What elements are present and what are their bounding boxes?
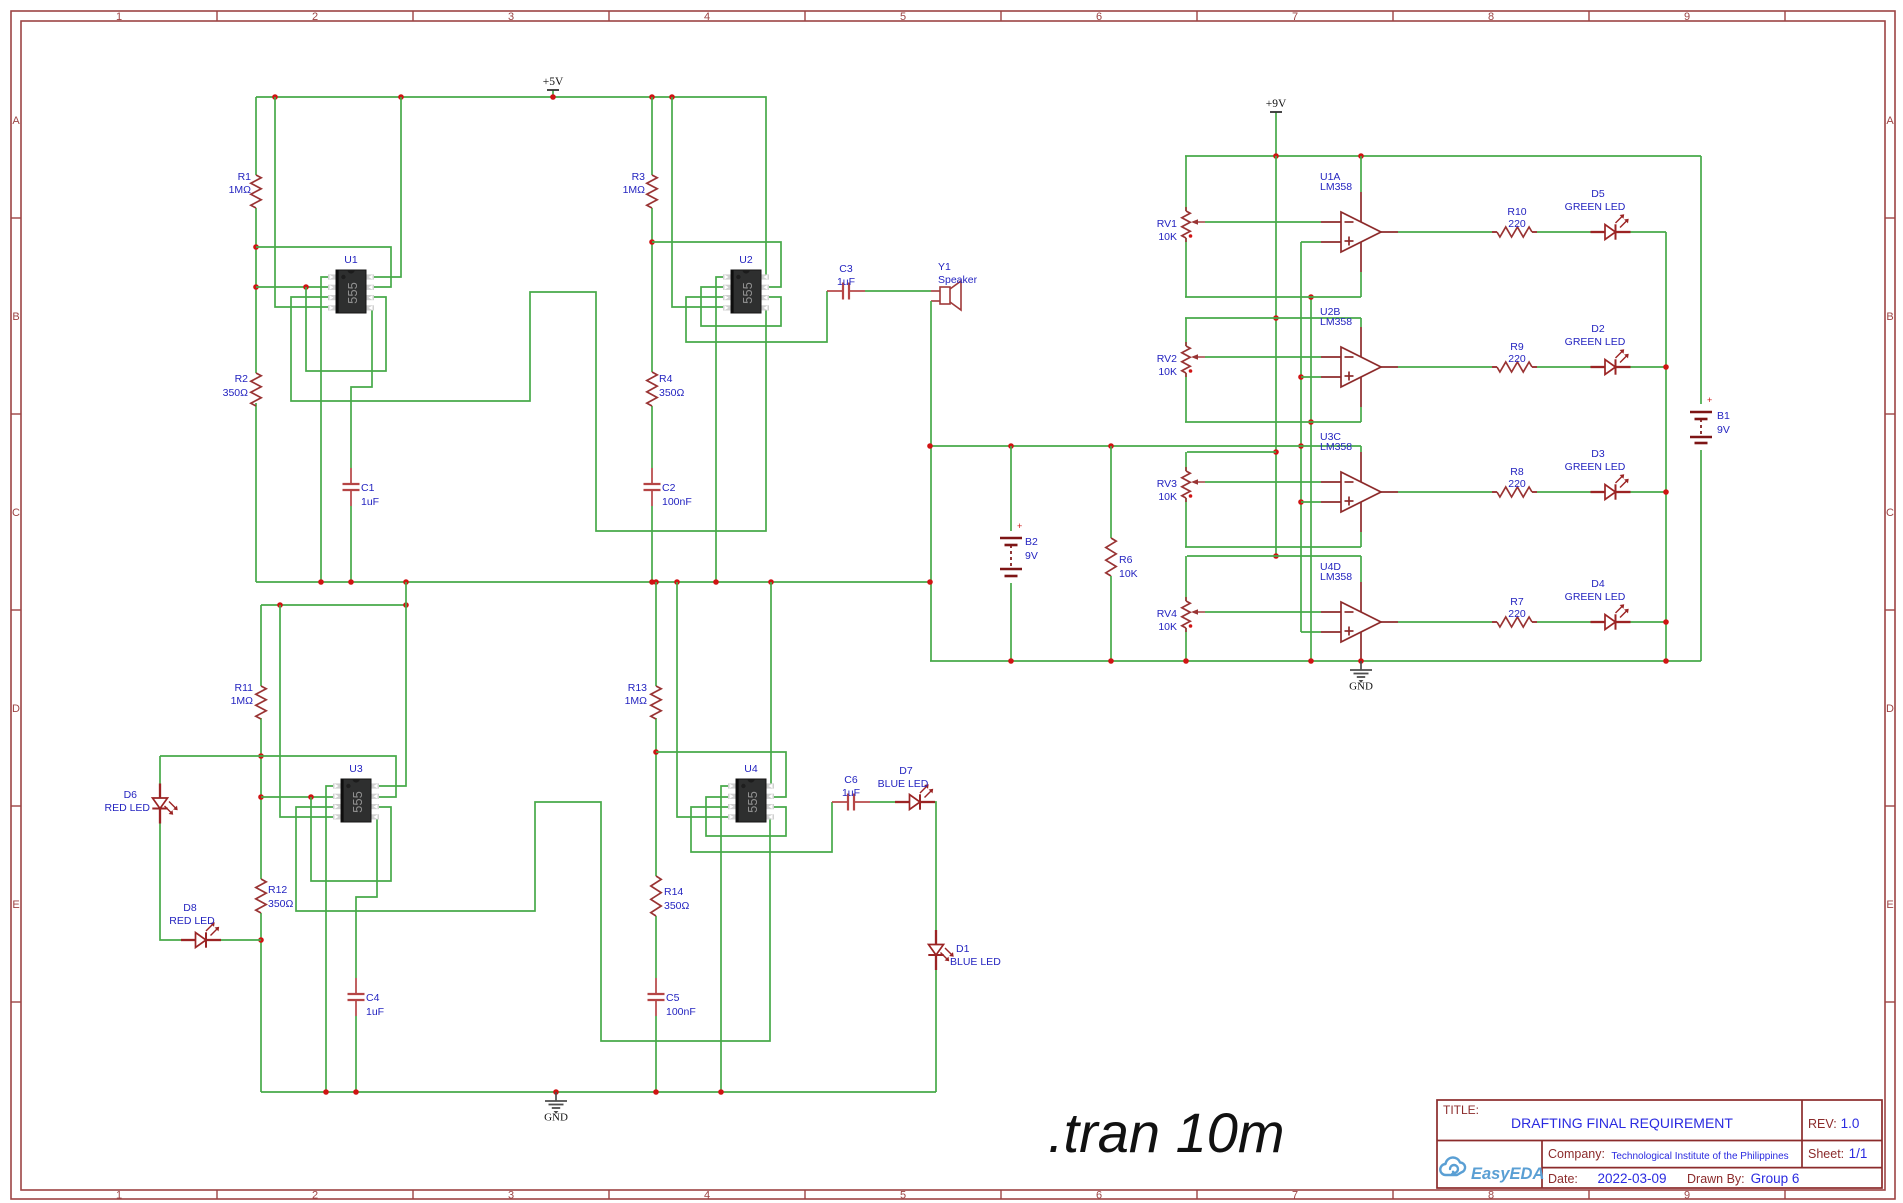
svg-text:1.0: 1.0	[1841, 1116, 1860, 1131]
svg-text:U4: U4	[744, 763, 758, 775]
svg-text:B2: B2	[1025, 536, 1038, 548]
wire U3 pin3 to U4 link	[296, 802, 770, 1041]
svg-text:7: 7	[1292, 11, 1298, 23]
speaker Y1	[931, 290, 940, 292]
node lower rail junctions	[277, 602, 283, 608]
power flag +5V	[552, 90, 554, 97]
svg-text:D8: D8	[183, 902, 197, 914]
svg-text:R14: R14	[664, 886, 683, 898]
wire ground column	[1310, 297, 1312, 661]
wire lower rail	[261, 604, 406, 606]
svg-text:C: C	[12, 507, 20, 519]
svg-text:C5: C5	[666, 992, 680, 1004]
svg-text:D1: D1	[956, 943, 970, 955]
wire U3 pin8 feed	[370, 582, 406, 786]
resistor R9 220	[1492, 366, 1497, 368]
node R3 junction	[649, 239, 655, 245]
LED D7 blue	[895, 801, 910, 803]
node left bus junctions	[318, 579, 324, 585]
svg-text:R6: R6	[1119, 554, 1133, 566]
svg-text:R13: R13	[628, 682, 647, 694]
svg-text:RV3: RV3	[1157, 478, 1177, 490]
svg-text:Speaker: Speaker	[938, 274, 978, 286]
svg-text:220: 220	[1508, 353, 1526, 365]
node R11-R12 junctions	[258, 753, 264, 759]
svg-text:RV1: RV1	[1157, 218, 1177, 230]
svg-text:D7: D7	[899, 765, 913, 777]
svg-text:R11: R11	[235, 682, 254, 694]
svg-text:6: 6	[1096, 11, 1102, 23]
node mid bus junctions	[927, 443, 933, 449]
wire U3 pin4 feed	[280, 605, 342, 817]
wire LED cathode column	[1665, 232, 1667, 661]
wire U1 pin8 to rail	[365, 97, 401, 277]
wire U4 pin8 feed	[765, 582, 771, 786]
wire D1 to bus	[935, 970, 937, 1092]
svg-text:Drawn By:: Drawn By:	[1687, 1172, 1745, 1186]
wire R10 to D5	[1537, 231, 1591, 233]
wire U1 pin7 link	[256, 247, 391, 287]
wire U1A output	[1398, 231, 1492, 233]
LED D1 blue	[935, 930, 937, 945]
LED D6 red	[159, 756, 161, 784]
wire R3-R4 column	[651, 97, 653, 175]
node lower bus junctions	[323, 1089, 329, 1095]
svg-text:U2: U2	[739, 254, 753, 266]
svg-text:GND: GND	[544, 1112, 568, 1124]
capacitor C1	[350, 468, 352, 484]
wire U2B output	[1398, 366, 1492, 368]
svg-text:R9: R9	[1510, 341, 1524, 353]
wire U4 pin1 down	[721, 786, 738, 1092]
svg-text:8: 8	[1488, 11, 1494, 23]
wire U1 pin6 loop	[306, 287, 386, 371]
wire U4 pin4 feed	[677, 582, 738, 817]
svg-text:DRAFTING FINAL REQUIREMENT: DRAFTING FINAL REQUIREMENT	[1511, 1115, 1733, 1131]
svg-text:555: 555	[745, 791, 760, 813]
wire mid signal bus	[930, 445, 1361, 447]
svg-text:2022-03-09: 2022-03-09	[1597, 1171, 1666, 1186]
svg-text:1MΩ: 1MΩ	[623, 184, 646, 196]
svg-text:GREEN LED: GREEN LED	[1565, 201, 1626, 213]
svg-text:9V: 9V	[1025, 550, 1038, 562]
svg-text:1/1: 1/1	[1849, 1146, 1868, 1161]
svg-text:555: 555	[345, 282, 360, 304]
wire R11-R12 column	[260, 605, 262, 686]
LED D8 red	[181, 939, 196, 941]
title block	[1437, 1100, 1882, 1188]
wire R9 to D2	[1537, 366, 1591, 368]
svg-text:D3: D3	[1591, 448, 1605, 460]
svg-text:1uF: 1uF	[842, 787, 860, 799]
resistor R12	[256, 879, 266, 913]
wire U4 pin3 to C6	[691, 802, 832, 852]
svg-text:+5V: +5V	[543, 76, 564, 88]
op-amp U3C LM358	[1360, 452, 1362, 482]
svg-text:C3: C3	[839, 263, 853, 275]
node +5V rail junctions	[272, 94, 278, 100]
wire speaker to buses	[930, 301, 932, 661]
svg-text:8: 8	[1488, 1190, 1494, 1202]
svg-text:4: 4	[704, 1190, 710, 1202]
wire U2 pin7 link	[652, 242, 781, 287]
node plus column junctions	[1298, 374, 1304, 380]
svg-text:REV:: REV:	[1808, 1117, 1837, 1131]
svg-text:B1: B1	[1717, 410, 1730, 422]
svg-text:5: 5	[900, 11, 906, 23]
wire U3C output	[1398, 491, 1492, 493]
svg-text:350Ω: 350Ω	[268, 898, 294, 910]
svg-text:1uF: 1uF	[837, 276, 855, 288]
svg-text:9V: 9V	[1717, 424, 1730, 436]
wire C1 to bus	[350, 506, 352, 582]
svg-text:+: +	[1017, 521, 1022, 531]
wire R8 to D3	[1537, 491, 1591, 493]
wire U2 pin3 to C3	[686, 291, 827, 342]
svg-text:C2: C2	[662, 482, 676, 494]
svg-text:1MΩ: 1MΩ	[231, 695, 254, 707]
resistor R13	[651, 686, 661, 719]
svg-text:LM358: LM358	[1320, 441, 1352, 453]
svg-text:9: 9	[1684, 1190, 1690, 1202]
svg-text:A: A	[12, 115, 20, 127]
svg-text:220: 220	[1508, 478, 1526, 490]
IC U4 555 timer	[728, 783, 736, 788]
wire U1 pin1 down	[321, 277, 337, 582]
node R1 junctions	[253, 244, 259, 250]
svg-text:A: A	[1886, 115, 1894, 127]
svg-text:GREEN LED: GREEN LED	[1565, 461, 1626, 473]
svg-text:Technological Institute of the: Technological Institute of the Philippin…	[1611, 1151, 1788, 1162]
svg-text:R8: R8	[1510, 466, 1524, 478]
svg-text:RV4: RV4	[1157, 608, 1177, 620]
node R13 junction	[653, 749, 659, 755]
wire RV4 box	[1187, 555, 1361, 557]
svg-text:LM358: LM358	[1320, 316, 1352, 328]
LED D2 green	[1591, 366, 1606, 368]
wire op-amp U4D plus input	[1301, 631, 1321, 633]
wire U4 pin7 link	[656, 752, 786, 797]
wire C5 to bus	[655, 1016, 657, 1092]
IC U1 555 timer	[328, 274, 336, 279]
wire U1 pin4 feed	[275, 97, 337, 307]
svg-text:Sheet:: Sheet:	[1808, 1147, 1844, 1161]
svg-text:B: B	[1886, 311, 1893, 323]
capacitor C4	[355, 978, 357, 994]
svg-text:10K: 10K	[1158, 621, 1177, 633]
svg-text:LM358: LM358	[1320, 571, 1352, 583]
svg-text:BLUE LED: BLUE LED	[950, 956, 1001, 968]
resistor R2	[251, 373, 261, 406]
svg-text:5: 5	[900, 1190, 906, 1202]
wire RV2 wiper to op-amp	[1205, 356, 1321, 358]
svg-text:9: 9	[1684, 11, 1690, 23]
resistor R14	[651, 876, 661, 916]
node U3 pin2 junction	[308, 794, 314, 800]
svg-text:D: D	[1886, 703, 1894, 715]
svg-text:R4: R4	[659, 373, 673, 385]
LED D4 green	[1591, 621, 1606, 623]
wire RV3 wiper to op-amp	[1205, 481, 1321, 483]
wire U3 pin5 to C4	[356, 817, 377, 978]
svg-text:.tran 10m: .tran 10m	[1048, 1101, 1285, 1164]
wire right ground bus	[930, 660, 1701, 662]
svg-text:10K: 10K	[1158, 231, 1177, 243]
potentiometer RV3 10K	[1185, 467, 1187, 471]
resistor R10 220	[1492, 231, 1497, 233]
power flag +9V	[1275, 112, 1277, 156]
wire U3 pin6 loop	[311, 797, 391, 881]
wire op-amp U2B supply	[1360, 318, 1362, 327]
wire U4 pin2 loop	[706, 797, 786, 836]
wire op-amp U3C supply	[1360, 446, 1362, 452]
svg-text:C4: C4	[366, 992, 380, 1004]
wire D2 to LED column	[1631, 366, 1667, 368]
battery B2 9V	[1010, 446, 1012, 531]
wire U3 pin2 line	[261, 796, 342, 798]
svg-text:U1: U1	[344, 254, 358, 266]
wire U2 pin2 loop	[701, 287, 781, 326]
svg-text:555: 555	[350, 791, 365, 813]
wire R13-R14 column	[655, 582, 657, 686]
svg-text:220: 220	[1508, 608, 1526, 620]
svg-text:1MΩ: 1MΩ	[625, 695, 648, 707]
svg-text:R3: R3	[632, 171, 646, 183]
wire +9V column	[1275, 156, 1277, 556]
svg-text:Group 6: Group 6	[1751, 1171, 1800, 1186]
svg-text:TITLE:: TITLE:	[1443, 1103, 1479, 1117]
svg-text:GND: GND	[1349, 681, 1373, 693]
svg-text:R10: R10	[1507, 206, 1526, 218]
ground GND right	[1360, 661, 1362, 670]
svg-text:C6: C6	[844, 774, 858, 786]
wire R1-R2 column	[255, 97, 257, 175]
svg-text:E: E	[1886, 899, 1893, 911]
svg-text:1: 1	[116, 1190, 122, 1202]
svg-text:RV2: RV2	[1157, 353, 1177, 365]
resistor R11	[256, 686, 266, 719]
wire RV2 box	[1185, 317, 1361, 319]
wire D3 to LED column	[1631, 491, 1667, 493]
svg-text:555: 555	[740, 282, 755, 304]
wire R7 to D4	[1537, 621, 1591, 623]
resistor R3	[647, 175, 657, 208]
resistor R7 220	[1492, 621, 1497, 623]
svg-text:350Ω: 350Ω	[223, 387, 249, 399]
wire U4D output	[1398, 621, 1492, 623]
node +9V rail junctions	[1273, 153, 1279, 159]
wire U2 pin1 down	[716, 277, 733, 582]
svg-text:E: E	[12, 899, 19, 911]
svg-text:R7: R7	[1510, 596, 1524, 608]
svg-text:6: 6	[1096, 1190, 1102, 1202]
capacitor C5	[655, 978, 657, 994]
wire U1 pin2 line	[256, 286, 337, 288]
svg-text:7: 7	[1292, 1190, 1298, 1202]
resistor R4	[647, 372, 657, 406]
wire +5V rail	[256, 97, 766, 277]
wire +9V rail	[1185, 155, 1701, 157]
wire D8 to R12 column	[221, 939, 261, 941]
svg-text:D6: D6	[124, 789, 138, 801]
svg-text:3: 3	[508, 11, 514, 23]
svg-text:Company:: Company:	[1548, 1147, 1605, 1161]
wire U3 pin1 down	[326, 786, 342, 1092]
svg-text:D4: D4	[1591, 578, 1605, 590]
svg-text:R1: R1	[238, 171, 252, 183]
svg-text:100nF: 100nF	[666, 1006, 696, 1018]
potentiometer RV2 10K	[1185, 342, 1187, 346]
IC U3 555 timer	[333, 783, 341, 788]
svg-text:+: +	[1707, 395, 1712, 405]
wire C6 to D7	[870, 801, 895, 803]
svg-text:R12: R12	[268, 884, 287, 896]
wire RV4 wiper to op-amp	[1205, 611, 1321, 613]
svg-text:U3: U3	[349, 763, 363, 775]
wire U1 pin5 to C1	[351, 307, 372, 468]
svg-text:Y1: Y1	[938, 261, 951, 273]
node right bus junctions	[1008, 658, 1014, 664]
svg-text:10K: 10K	[1158, 491, 1177, 503]
svg-text:1MΩ: 1MΩ	[229, 184, 252, 196]
svg-text:D2: D2	[1591, 323, 1605, 335]
wire noninverting input column	[1300, 242, 1302, 632]
svg-text:1: 1	[116, 11, 122, 23]
svg-text:10K: 10K	[1158, 366, 1177, 378]
svg-text:1uF: 1uF	[366, 1006, 384, 1018]
wire C2 to bus	[651, 506, 653, 582]
wire D6 to D8	[160, 824, 181, 941]
svg-text:GREEN LED: GREEN LED	[1565, 336, 1626, 348]
resistor R1	[251, 175, 261, 208]
svg-text:D: D	[12, 703, 20, 715]
svg-text:Date:: Date:	[1548, 1172, 1578, 1186]
battery B1 9V	[1700, 156, 1702, 404]
LED D5 green	[1591, 231, 1606, 233]
svg-text:350Ω: 350Ω	[659, 387, 685, 399]
node LED column junctions	[1663, 364, 1669, 370]
resistor R8 220	[1492, 491, 1497, 493]
ground GND lower	[555, 1092, 557, 1101]
wire op-amp U2B plus input	[1301, 376, 1321, 378]
wire lower ground bus	[261, 1091, 936, 1093]
svg-text:1uF: 1uF	[361, 496, 379, 508]
node ground column junctions	[1308, 294, 1314, 300]
svg-text:350Ω: 350Ω	[664, 900, 690, 912]
svg-text:100nF: 100nF	[662, 496, 692, 508]
easyeda logo	[1440, 1158, 1465, 1175]
node U1 pin2 junction	[303, 284, 309, 290]
potentiometer RV4 10K	[1185, 597, 1187, 601]
svg-text:2: 2	[312, 1190, 318, 1202]
potentiometer RV1 10K	[1185, 207, 1187, 211]
svg-text:C1: C1	[361, 482, 375, 494]
svg-text:D5: D5	[1591, 188, 1605, 200]
svg-text:2: 2	[312, 11, 318, 23]
svg-text:+9V: +9V	[1266, 98, 1287, 110]
LED D3 green	[1591, 491, 1606, 493]
wire U2 pin4 feed	[672, 97, 733, 307]
wire op-amp U3C plus input	[1301, 501, 1321, 503]
svg-text:10K: 10K	[1119, 568, 1138, 580]
capacitor C3	[827, 290, 843, 292]
wire op-amp U1A plus input	[1301, 241, 1321, 243]
wire op-amp U1A supply	[1360, 156, 1362, 192]
svg-text:C: C	[1886, 507, 1894, 519]
wire left ground bus	[256, 581, 930, 583]
resistor R6 10K	[1110, 446, 1112, 538]
svg-text:LM358: LM358	[1320, 181, 1352, 193]
svg-text:4: 4	[704, 11, 710, 23]
op-amp U4D LM358	[1360, 582, 1362, 612]
svg-text:EasyEDA: EasyEDA	[1471, 1165, 1544, 1183]
svg-text:BLUE LED: BLUE LED	[878, 778, 929, 790]
wire D4 to LED column	[1631, 621, 1667, 623]
capacitor C6	[832, 801, 848, 803]
svg-text:B: B	[12, 311, 19, 323]
op-amp U1A LM358	[1360, 192, 1362, 222]
op-amp U2B LM358	[1360, 327, 1362, 357]
wire D5 to LED column	[1631, 231, 1667, 233]
svg-text:220: 220	[1508, 218, 1526, 230]
wire C3 to speaker	[865, 290, 931, 292]
wire D7 to D1	[935, 802, 936, 930]
wire RV1 wiper to op-amp	[1205, 221, 1321, 223]
node +9V column junctions	[1273, 315, 1279, 321]
svg-text:RED LED: RED LED	[104, 802, 150, 814]
svg-text:RED LED: RED LED	[169, 915, 215, 927]
wire RV3 box	[1187, 451, 1276, 453]
IC U2 555 timer	[723, 274, 731, 279]
wire C4 to bus	[355, 1016, 357, 1092]
wire RV1 box	[1185, 296, 1361, 298]
capacitor C2	[651, 468, 653, 484]
svg-text:R2: R2	[235, 373, 249, 385]
wire op-amp U4D supply	[1360, 556, 1362, 582]
wire U1 pin3 to U2 link	[291, 292, 766, 531]
wire D6 to U3 pin7	[160, 756, 396, 797]
svg-text:GREEN LED: GREEN LED	[1565, 591, 1626, 603]
svg-text:3: 3	[508, 1190, 514, 1202]
